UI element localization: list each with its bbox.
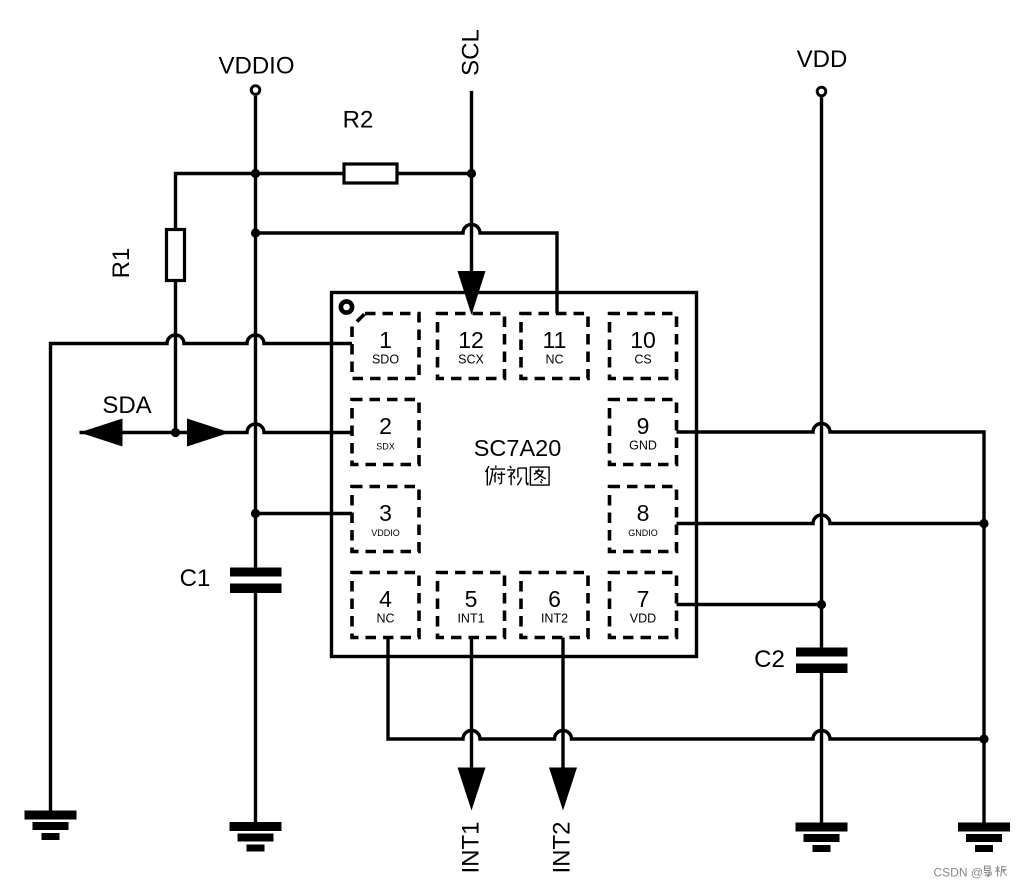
ground far left <box>25 811 77 841</box>
svg-text:5: 5 <box>465 586 478 612</box>
wire SDA to pin 2 (hop over VDDIO) <box>80 424 353 433</box>
pin 8 GNDIO <box>610 487 677 552</box>
junction node VDDIO / pin3 wire <box>251 509 260 518</box>
svg-text:SCX: SCX <box>458 353 484 367</box>
power terminal VDD <box>797 46 848 96</box>
capacitor C1 <box>180 565 282 593</box>
arrow INT2 <box>549 768 577 811</box>
pin 5 INT1 <box>438 573 505 638</box>
pin 7 VDD <box>610 573 677 638</box>
ground under C1 <box>230 822 282 852</box>
pin 10 CS <box>610 314 677 379</box>
svg-text:GND: GND <box>629 439 657 453</box>
wire SCL vertical <box>470 91 473 276</box>
wire INT1 from pin 5 <box>470 638 473 773</box>
svg-text:3: 3 <box>379 500 392 526</box>
svg-text:NC: NC <box>376 612 394 626</box>
arrowhead SDA right <box>187 419 230 447</box>
IC U1 SC7A20 body <box>332 293 697 657</box>
svg-text:INT1: INT1 <box>457 612 484 626</box>
svg-text:SDO: SDO <box>372 353 399 367</box>
svg-text:12: 12 <box>458 327 484 353</box>
pin 4 NC <box>352 573 419 638</box>
junction node pin7 / VDD rail <box>817 600 826 609</box>
pin 1 SDO <box>352 314 419 379</box>
svg-text:R1: R1 <box>108 248 135 279</box>
wire top rail VDDIO to R2 to SCL <box>176 174 472 230</box>
svg-text:R2: R2 <box>343 107 374 134</box>
pin 6 INT2 <box>521 573 588 638</box>
svg-text:8: 8 <box>637 500 650 526</box>
capacitor C2 <box>754 646 847 673</box>
resistor R1 <box>108 230 185 281</box>
ground far right <box>958 823 1010 853</box>
junction node SCL / top rail <box>467 169 476 178</box>
IC subtitle 俯视图 (drawn glyphs) <box>486 466 550 486</box>
svg-text:1: 1 <box>379 327 392 353</box>
svg-text:7: 7 <box>637 586 650 612</box>
junction node VDDIO / pin11 rail <box>251 228 260 237</box>
svg-text:VDD: VDD <box>797 46 848 73</box>
svg-text:CS: CS <box>634 353 651 367</box>
arrow SCL into pin 12 <box>458 271 486 315</box>
svg-text:SDX: SDX <box>376 442 395 452</box>
wire INT2 from pin 6 <box>561 638 564 773</box>
svg-text:2: 2 <box>379 413 392 439</box>
svg-text:10: 10 <box>630 327 656 353</box>
pin 9 GND <box>610 400 677 465</box>
svg-text:INT2: INT2 <box>541 612 568 626</box>
svg-text:NC: NC <box>545 353 563 367</box>
pin 11 NC <box>521 314 588 379</box>
junction node bottom rail / right rail <box>979 734 988 743</box>
svg-text:SDA: SDA <box>102 392 151 419</box>
svg-text:SC7A20: SC7A20 <box>474 435 562 461</box>
svg-text:11: 11 <box>543 327 567 353</box>
junction node R1 / SDA <box>171 428 180 437</box>
svg-text:VDDIO: VDDIO <box>218 53 294 80</box>
wire C1 to ground <box>254 593 257 822</box>
pin 2 SDX <box>352 400 419 465</box>
wire pin 4 NC to bottom rail (hops over INT1, INT2, C2) <box>388 638 984 740</box>
svg-text:6: 6 <box>548 586 561 612</box>
wire R1 bottom to SDA node <box>174 281 177 433</box>
svg-text:C1: C1 <box>180 565 211 592</box>
junction node pin8 rail / right rail <box>979 519 988 528</box>
wire VDDIO to pin 3 <box>256 512 353 515</box>
wire C2 to ground <box>820 673 823 823</box>
svg-text:4: 4 <box>379 586 392 612</box>
wire pin 7 VDD to VDD rail <box>677 603 822 606</box>
svg-text:INT2: INT2 <box>549 821 576 873</box>
wire pin 9 GND to right rail (hop over VDD) <box>677 424 985 823</box>
svg-text:C2: C2 <box>754 646 785 673</box>
wire pin 8 GNDIO to right rail (hop over VDD) <box>677 515 985 524</box>
wire pin1 SDO to left ground rail (hops over R1 and VDDIO) <box>51 335 353 811</box>
wire VDD vertical rail <box>820 97 823 647</box>
arrowhead SDA left <box>80 419 123 447</box>
wire VDDIO vertical rail <box>254 96 257 568</box>
pin 1 indicator dot <box>341 301 352 312</box>
watermark CSDN @easyboard <box>934 866 1007 880</box>
svg-text:GNDIO: GNDIO <box>628 528 658 538</box>
pin 3 VDDIO <box>352 487 419 552</box>
svg-text:INT1: INT1 <box>458 821 485 873</box>
pin 12 SCX <box>438 314 505 379</box>
power terminal VDDIO <box>218 53 294 95</box>
svg-text:VDD: VDD <box>630 612 656 626</box>
junction node VDDIO / top rail <box>251 169 260 178</box>
svg-text:VDDIO: VDDIO <box>371 528 400 538</box>
ground under C2 <box>796 823 848 853</box>
resistor R2 <box>343 107 397 184</box>
arrow INT1 <box>458 768 486 811</box>
svg-text:CSDN @: CSDN @ <box>934 866 984 880</box>
svg-text:SCL: SCL <box>458 29 485 76</box>
svg-text:9: 9 <box>637 413 650 439</box>
wire VDDIO node to pin 11 (hop over SCL) <box>256 225 558 314</box>
